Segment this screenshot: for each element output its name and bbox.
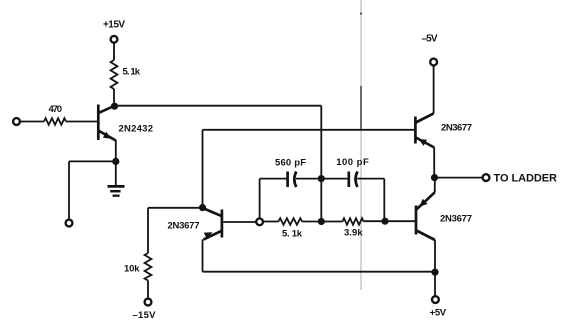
svg-text:2N3677: 2N3677 (441, 123, 472, 134)
svg-text:5. 1k: 5. 1k (123, 67, 141, 78)
svg-text:2N3677: 2N3677 (440, 214, 472, 225)
svg-text:2N2432: 2N2432 (119, 124, 154, 135)
svg-text:–5V: –5V (422, 34, 438, 45)
svg-text:10k: 10k (124, 264, 140, 275)
svg-text:2N3677: 2N3677 (168, 221, 200, 232)
svg-text:3.9k: 3.9k (344, 227, 363, 238)
svg-text:560 pF: 560 pF (275, 157, 306, 168)
svg-text:–15V: –15V (133, 310, 157, 321)
svg-text:+5V: +5V (430, 308, 447, 319)
svg-text:TO LADDER: TO LADDER (494, 172, 558, 184)
svg-text:100 pF: 100 pF (336, 157, 369, 168)
svg-text:470: 470 (49, 104, 63, 115)
svg-text:+15V: +15V (103, 20, 125, 31)
svg-text:5. 1k: 5. 1k (282, 228, 303, 239)
